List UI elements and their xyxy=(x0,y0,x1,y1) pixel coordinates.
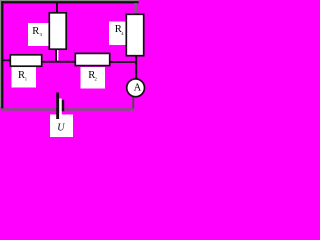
resistor R4 body xyxy=(126,14,143,55)
wire: R4 top lead xyxy=(135,3,137,14)
wire: top bus gray fringe xyxy=(0,0,139,1)
wire: R3 bottom lead white halo xyxy=(57,50,58,61)
label box R2 xyxy=(81,67,106,89)
svg-text:U: U xyxy=(57,123,65,134)
wire: middle bus left stub xyxy=(2,59,11,61)
resistor R1 body xyxy=(10,55,41,66)
wire: left bus xyxy=(1,1,3,110)
label box U xyxy=(50,115,73,138)
resistor R2 body xyxy=(75,53,109,65)
wire: R4 bottom lead to junction and ammeter xyxy=(135,55,137,79)
ammeter A circle xyxy=(127,79,145,97)
wire: R3 bottom lead xyxy=(55,50,57,63)
battery long plate white halo xyxy=(59,99,62,115)
wire: left bus gray fringe xyxy=(0,1,1,107)
label box R1 xyxy=(12,67,37,88)
wire: R3 top lead xyxy=(56,3,58,13)
wire: bottom bus right segment xyxy=(64,108,134,110)
battery long plate xyxy=(56,93,59,120)
wire: top bus xyxy=(0,1,139,3)
label box R3 xyxy=(28,23,49,46)
wire: middle bus R2 to right junction xyxy=(110,61,137,63)
battery short plate xyxy=(62,100,64,112)
ammeter A bottom lead xyxy=(132,97,134,110)
svg-text:A: A xyxy=(134,82,142,93)
wire: middle bus R1 to R2 xyxy=(42,61,75,63)
wire: bottom bus left segment xyxy=(1,108,56,110)
label box R4 xyxy=(109,22,126,46)
resistor R3 body xyxy=(49,13,66,49)
